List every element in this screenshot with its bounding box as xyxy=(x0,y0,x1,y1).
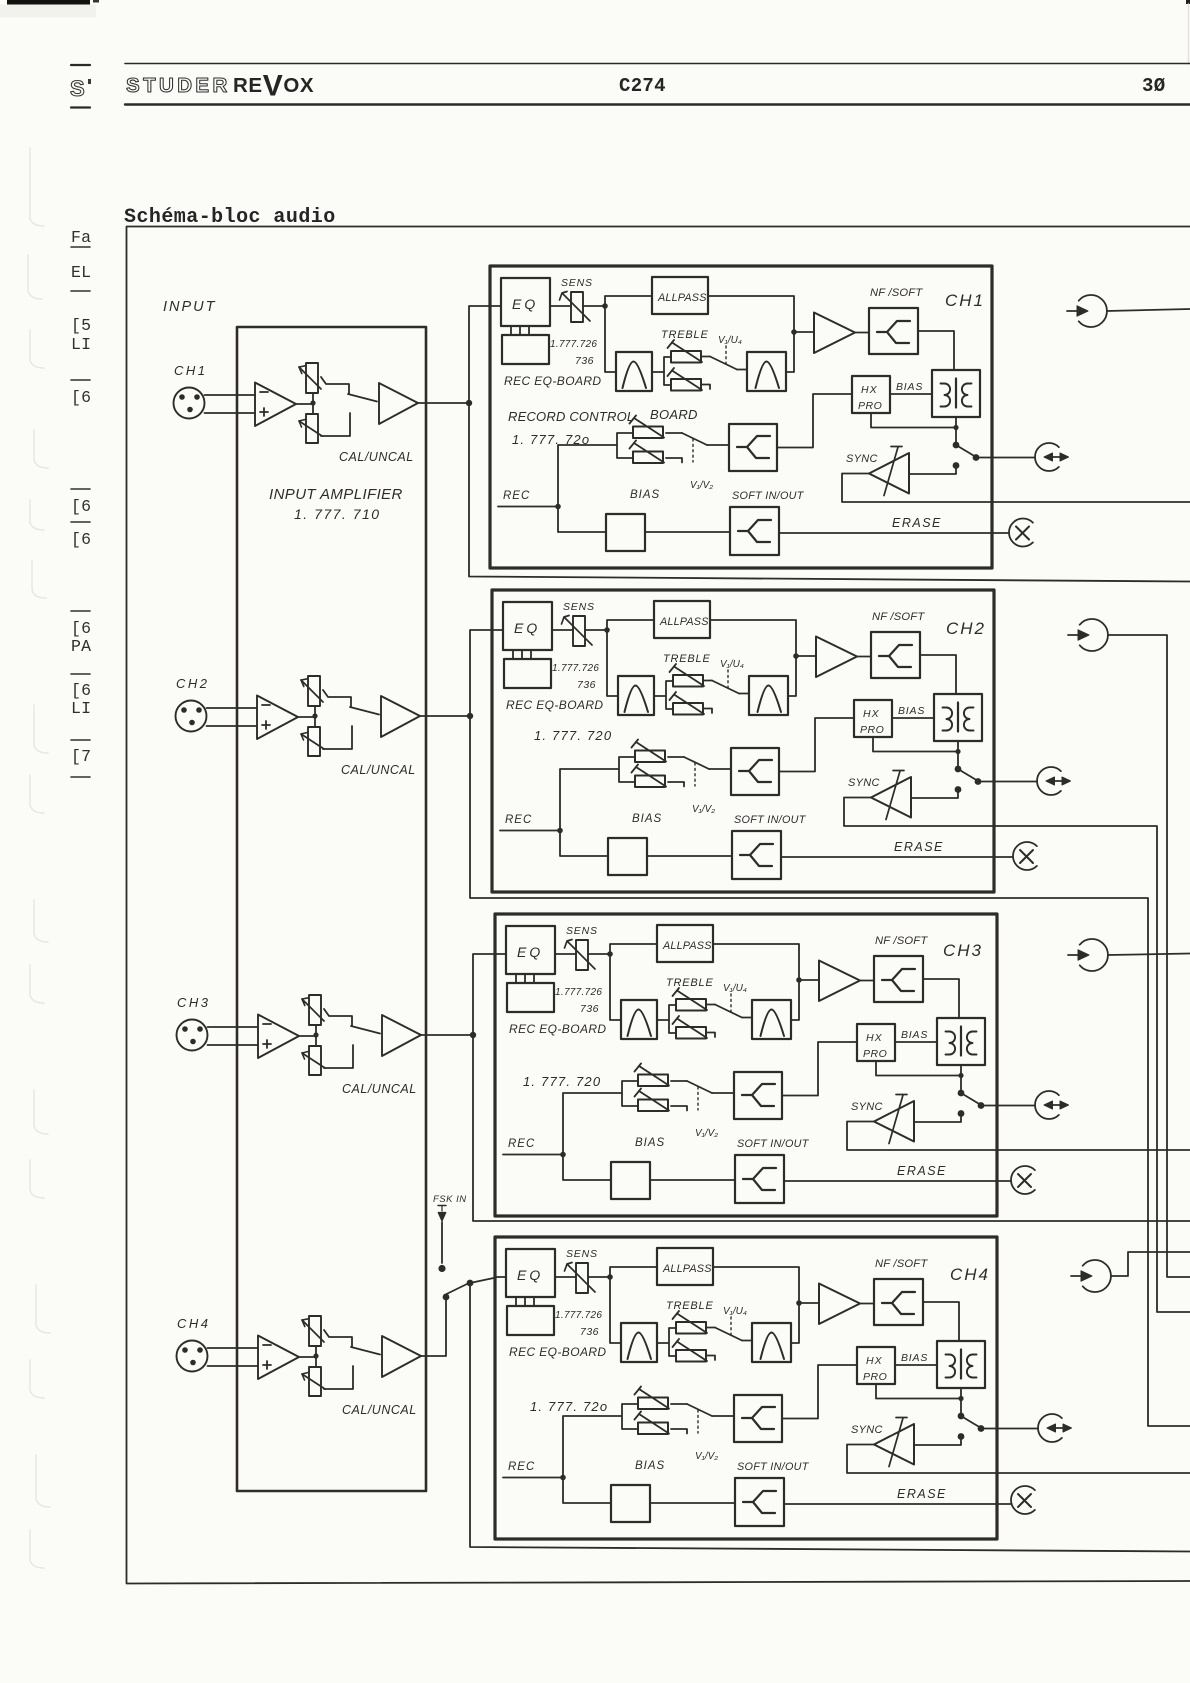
wire CH2 amp out to bus node xyxy=(420,715,470,717)
CAL trim pot upper xyxy=(302,995,324,1025)
wire REC to erase path xyxy=(558,507,606,533)
wires XLR to input op-amp xyxy=(208,1027,259,1045)
EQ block xyxy=(503,602,552,650)
bias switch arm xyxy=(687,1081,712,1093)
wire arm to record fork xyxy=(707,444,729,446)
node sync switch common xyxy=(958,1413,965,1420)
bias switch link dotted xyxy=(697,1410,699,1433)
node sync contact xyxy=(958,1110,965,1117)
node CAL junction CH4 xyxy=(313,1353,318,1358)
treble switch contacts xyxy=(706,1005,715,1038)
wire erase out xyxy=(779,532,992,534)
TREBLE trim pot lower xyxy=(673,1016,708,1039)
svg-text:CAL/UNCAL: CAL/UNCAL xyxy=(342,1082,417,1096)
svg-text:PRO: PRO xyxy=(860,724,884,736)
wire CH2 sync feed line xyxy=(994,826,1190,1312)
svg-text:ERASE: ERASE xyxy=(892,516,942,530)
svg-text:Fa: Fa xyxy=(71,228,91,247)
svg-text:BOARD: BOARD xyxy=(650,407,698,422)
svg-text:FSK IN: FSK IN xyxy=(433,1194,467,1205)
wire allpass out xyxy=(713,944,799,980)
svg-text:BIAS: BIAS xyxy=(632,813,662,825)
erase oscillator block xyxy=(608,838,647,875)
SENS trim pot xyxy=(571,292,583,322)
cut-off left column text fragments xyxy=(71,228,91,777)
node REC xyxy=(560,1152,566,1158)
wire CH4 sync feed line xyxy=(997,1472,1190,1474)
wire node to bandpass1 xyxy=(610,1277,621,1343)
wire bp2 out xyxy=(791,1303,799,1343)
node head bottom xyxy=(955,749,960,754)
wire switch out to edge xyxy=(981,1428,997,1430)
EQ block xyxy=(506,926,555,974)
SENS trim pot xyxy=(576,1263,588,1293)
svg-text:REC EQ-BOARD: REC EQ-BOARD xyxy=(504,374,601,388)
wire head to sync switch xyxy=(957,741,959,769)
BIAS trim pot lower xyxy=(630,441,665,464)
EQ board connector pins xyxy=(516,974,534,983)
svg-text:C274: C274 xyxy=(619,75,666,97)
wire CH3 line out to edge xyxy=(1108,954,1190,956)
wire node to amp xyxy=(799,1302,819,1304)
svg-text:1.777.726: 1.777.726 xyxy=(552,663,599,674)
wire hxpro to transformer xyxy=(890,393,932,395)
svg-text:SENS: SENS xyxy=(566,925,598,937)
svg-text:BIAS: BIAS xyxy=(901,1352,928,1364)
record mode fork block xyxy=(734,1395,782,1442)
svg-text:REC: REC xyxy=(503,490,530,502)
svg-text:V₁/U₄: V₁/U₄ xyxy=(720,659,744,670)
wire arm to bandpass2 xyxy=(737,369,747,371)
node sync switch common xyxy=(955,766,962,773)
svg-text:HX: HX xyxy=(866,1355,883,1367)
svg-text:PRO: PRO xyxy=(858,400,882,412)
XLR input connector CH2 xyxy=(176,701,207,732)
XLR input connector CH4 xyxy=(177,1341,208,1372)
record amp triangle xyxy=(819,1284,860,1325)
ALLPASS block xyxy=(652,277,708,314)
TREBLE trim pot lower xyxy=(673,1339,708,1362)
wire node to allpass xyxy=(607,620,654,630)
svg-text:NF /SOFT: NF /SOFT xyxy=(872,611,925,623)
wire arm to bandpass2 xyxy=(739,693,749,695)
wire hxpro bottom loop xyxy=(871,413,956,428)
wire arm to bandpass2 xyxy=(742,1340,752,1342)
record amp triangle xyxy=(816,637,857,678)
wires XLR to input op-amp xyxy=(208,1348,259,1366)
wire CH1 line out to edge xyxy=(1107,309,1190,311)
wire REC to bias pots xyxy=(563,1404,638,1478)
svg-text:PA: PA xyxy=(71,637,91,656)
record head transformer xyxy=(937,1018,985,1065)
wire CH2 erase to connector xyxy=(994,856,1013,858)
CAL trim pot lower xyxy=(301,727,324,756)
svg-text:CAL/UNCAL: CAL/UNCAL xyxy=(341,763,416,777)
BIAS trim pot lower xyxy=(635,1412,670,1435)
second op-amp CH2 xyxy=(381,696,420,737)
svg-text:LI: LI xyxy=(71,335,91,354)
svg-text:INPUT AMPLIFIER: INPUT AMPLIFIER xyxy=(269,486,403,503)
monitor connector CH4 xyxy=(1038,1414,1071,1442)
svg-text:[6: [6 xyxy=(71,388,91,407)
wire bp1 to treble pots xyxy=(657,1005,676,1033)
svg-text:CH2: CH2 xyxy=(946,619,986,638)
sync playback amp xyxy=(874,1424,914,1465)
wire CH3 sync switch to monitor connector xyxy=(997,1105,1035,1107)
node EQ out xyxy=(607,951,613,957)
CAL trim pot lower xyxy=(302,1046,325,1075)
node sync contact xyxy=(953,462,960,469)
wire sync amp to feed line xyxy=(844,798,994,827)
wire CH4 bus to lower bus line xyxy=(470,1283,1190,1552)
bandpass filter 2 xyxy=(752,1000,791,1039)
wire EQ to SENS to node xyxy=(495,953,610,955)
TREBLE trim pot lower xyxy=(670,692,705,715)
svg-text:CH3: CH3 xyxy=(177,995,211,1010)
wire amp to nf/soft xyxy=(855,332,869,334)
wire fork to hxpro xyxy=(782,1365,857,1419)
wires XLR to input op-amp xyxy=(207,708,258,726)
node allpass/bp join xyxy=(793,653,799,659)
HX PRO block xyxy=(854,700,892,737)
wire allpass out xyxy=(713,1267,799,1303)
monitor connector CH2 xyxy=(1037,767,1070,795)
input op-amp CH1 xyxy=(255,383,296,427)
node head bottom xyxy=(953,425,958,430)
wire sync amp to feed line xyxy=(847,1122,997,1151)
SENS trim pot xyxy=(576,940,588,970)
svg-text:ALLPASS: ALLPASS xyxy=(662,940,712,952)
wire CH3 bus to EQ xyxy=(473,954,496,1035)
wire node to allpass xyxy=(610,944,657,954)
CAL trim pot upper xyxy=(301,676,323,706)
wire node to amp xyxy=(799,979,819,981)
svg-text:STUDER: STUDER xyxy=(126,74,231,97)
svg-text:ERASE: ERASE xyxy=(894,840,944,854)
wire bp1 to treble pots xyxy=(654,681,673,709)
wire arm to record fork xyxy=(712,1092,734,1094)
header top rule xyxy=(125,63,1190,65)
BIAS trim pot upper xyxy=(635,1064,670,1087)
erase oscillator block xyxy=(611,1162,650,1199)
svg-text:[6: [6 xyxy=(71,619,91,638)
wire osc to erase fork xyxy=(650,1502,735,1504)
svg-text:CH1: CH1 xyxy=(945,291,985,310)
wire CH2 sync switch to monitor connector xyxy=(994,781,1037,783)
svg-text:ERASE: ERASE xyxy=(897,1164,947,1178)
wire amp to nf/soft xyxy=(860,980,874,982)
BIAS trim pot upper xyxy=(632,740,667,763)
record head transformer xyxy=(934,694,982,741)
record amp triangle xyxy=(814,313,855,354)
wire CH2 line out routing xyxy=(1108,635,1190,1277)
BIAS trim pot lower xyxy=(632,765,667,788)
wire node to amp xyxy=(796,655,816,657)
HX PRO block xyxy=(857,1347,895,1384)
svg-text:BIAS: BIAS xyxy=(635,1137,665,1149)
node CH4 signal contact xyxy=(443,1294,450,1301)
svg-text:BIAS: BIAS xyxy=(901,1029,928,1041)
TREBLE trim pot upper xyxy=(668,340,703,363)
HX PRO block xyxy=(852,376,890,413)
sync switch arm xyxy=(961,1416,981,1428)
erase fork block xyxy=(735,1155,784,1203)
wire node to bandpass1 xyxy=(605,306,616,372)
wire node to bandpass1 xyxy=(607,630,618,696)
wire op-amp to CAL node xyxy=(296,403,313,405)
svg-text:TREBLE: TREBLE xyxy=(666,1300,714,1312)
svg-text:PRO: PRO xyxy=(863,1371,887,1383)
svg-text:BIAS: BIAS xyxy=(898,705,925,717)
wire allpass out xyxy=(710,620,796,656)
wire bp1 to treble pots xyxy=(657,1328,676,1356)
scanner black bar top left xyxy=(7,0,90,5)
wires CAL network xyxy=(312,393,314,414)
node sync switch out xyxy=(973,454,980,461)
FSK switch arm xyxy=(445,1284,469,1296)
wire switch out to edge xyxy=(981,1105,997,1107)
wire node to allpass xyxy=(610,1267,657,1277)
wire CH4 erase to connector xyxy=(997,1503,1011,1505)
svg-text:NF /SOFT: NF /SOFT xyxy=(870,287,923,299)
channel block CH2 border xyxy=(492,590,994,892)
CAL trim pot lower xyxy=(299,414,322,443)
wire REC to bias pots xyxy=(563,1081,638,1155)
sync switch arm xyxy=(961,1093,981,1105)
HX PRO block xyxy=(857,1024,895,1061)
svg-text:SOFT IN/OUT: SOFT IN/OUT xyxy=(732,490,805,502)
wire osc to erase fork xyxy=(650,1179,735,1181)
svg-text:V₁/V₂: V₁/V₂ xyxy=(695,1128,718,1139)
svg-text:SYNC: SYNC xyxy=(848,777,880,789)
TREBLE trim pot upper xyxy=(673,1311,708,1334)
CAL trim pot upper xyxy=(302,1316,324,1346)
svg-text:LI: LI xyxy=(71,699,91,718)
bias switch arm xyxy=(684,757,709,769)
svg-text:1.777.726: 1.777.726 xyxy=(555,1310,602,1321)
svg-text:ALLPASS: ALLPASS xyxy=(662,1263,712,1275)
svg-text:TREBLE: TREBLE xyxy=(661,329,709,341)
record head transformer xyxy=(937,1341,985,1388)
wire CH1 erase to connector xyxy=(992,532,1009,534)
wire op-amp to CAL node xyxy=(299,1035,316,1037)
svg-text:SENS: SENS xyxy=(563,601,595,613)
wire osc to erase fork xyxy=(645,531,730,533)
svg-text:736: 736 xyxy=(575,355,594,367)
wire fork to hxpro xyxy=(782,1042,857,1096)
ALLPASS block xyxy=(657,1248,713,1285)
CAL trim pot lower xyxy=(302,1367,325,1396)
node EQ out xyxy=(602,303,608,309)
bandpass filter 2 xyxy=(749,676,788,715)
bias switch link dotted xyxy=(697,1087,699,1110)
svg-text:SYNC: SYNC xyxy=(851,1424,883,1436)
FSK IN terminal arrow xyxy=(438,1205,446,1207)
wire EQ to SENS to node xyxy=(492,629,607,631)
svg-text:REC: REC xyxy=(508,1461,535,1473)
wire EQ to SENS to node xyxy=(490,305,605,307)
wire node to allpass xyxy=(605,296,652,306)
wire sync contact to sync amp xyxy=(911,790,958,799)
node CH4 input bus xyxy=(467,1280,474,1287)
wire nf/soft to head transformer xyxy=(920,655,956,694)
svg-text:CH4: CH4 xyxy=(177,1316,211,1331)
wire REC in xyxy=(498,506,558,508)
svg-text:REC EQ-BOARD: REC EQ-BOARD xyxy=(509,1022,606,1036)
wire hxpro bottom loop xyxy=(876,1061,961,1076)
svg-text:EQ: EQ xyxy=(512,296,538,312)
node REC xyxy=(557,828,563,834)
svg-text:SYNC: SYNC xyxy=(851,1101,883,1113)
EQ block xyxy=(501,278,550,326)
svg-text:1. 777. 720: 1. 777. 720 xyxy=(534,728,612,743)
svg-text:CAL/UNCAL: CAL/UNCAL xyxy=(339,450,414,464)
XLR input connector CH3 xyxy=(177,1020,208,1051)
wire REC in xyxy=(503,1154,563,1156)
node head bottom xyxy=(958,1073,963,1078)
wire CH1 bus to EQ xyxy=(469,306,491,403)
svg-text:HX: HX xyxy=(866,1032,883,1044)
outer schematic frame xyxy=(127,227,1190,1584)
svg-text:SENS: SENS xyxy=(566,1248,598,1260)
BIAS trim pot upper xyxy=(630,416,665,439)
wire nf/soft to head transformer xyxy=(918,331,954,370)
EQ daughter board xyxy=(502,335,549,364)
wire CH1 bus to lower bus line xyxy=(469,403,1190,582)
node sync switch out xyxy=(978,1102,985,1109)
svg-text:CAL/UNCAL: CAL/UNCAL xyxy=(342,1403,417,1417)
svg-text:1. 777. 710: 1. 777. 710 xyxy=(294,506,381,522)
wire hxpro to transformer xyxy=(895,1364,937,1366)
bandpass filter 1 xyxy=(621,1000,657,1039)
faint scan artifacts left edge xyxy=(28,148,50,1568)
wire sync amp to feed line xyxy=(847,1445,997,1474)
node sync contact xyxy=(955,786,962,793)
svg-text:V₁/U₄: V₁/U₄ xyxy=(718,335,742,346)
treble switch contacts xyxy=(706,1328,715,1361)
channel block CH3 border xyxy=(495,914,997,1216)
svg-text:SYNC: SYNC xyxy=(846,453,878,465)
erase connector CH1 xyxy=(1009,519,1033,547)
node CAL junction CH2 xyxy=(312,713,317,718)
node EQ out xyxy=(604,627,610,633)
svg-text:736: 736 xyxy=(577,679,596,691)
wire CH3 amp out to bus node xyxy=(421,1034,473,1036)
sync playback amp xyxy=(874,1101,914,1142)
erase oscillator block xyxy=(606,514,645,551)
svg-text:REC: REC xyxy=(508,1138,535,1150)
wire erase out xyxy=(784,1503,997,1505)
node CAL junction CH1 xyxy=(310,400,315,405)
erase connector CH3 xyxy=(1011,1166,1035,1194)
wire bp2 out xyxy=(788,656,796,696)
EQ board connector pins xyxy=(513,650,531,659)
switch link dotted xyxy=(725,346,727,365)
record mode fork block xyxy=(729,424,777,471)
wire arm to bandpass2 xyxy=(742,1017,752,1019)
NF/SOFT switch block xyxy=(871,632,920,678)
monitor connector CH3 xyxy=(1035,1091,1068,1119)
wire arm to record fork xyxy=(709,768,731,770)
wire erase out xyxy=(781,856,994,858)
SENS trim pot xyxy=(573,616,585,646)
svg-text:SOFT IN/OUT: SOFT IN/OUT xyxy=(737,1461,810,1473)
svg-text:736: 736 xyxy=(580,1326,599,1338)
wire nf/soft to head transformer xyxy=(923,1302,959,1341)
node EQ out xyxy=(607,1274,613,1280)
TREBLE trim pot upper xyxy=(670,664,705,687)
svg-text:INPUT: INPUT xyxy=(163,299,217,315)
svg-text:[6: [6 xyxy=(71,530,91,549)
svg-text:V₁/U₄: V₁/U₄ xyxy=(723,983,747,994)
svg-text:EL: EL xyxy=(71,263,91,282)
wire osc to erase fork xyxy=(647,855,732,857)
node sync contact xyxy=(958,1433,965,1440)
treble switch contacts xyxy=(703,681,712,714)
treble switch contacts xyxy=(701,357,710,390)
bias switch contacts xyxy=(671,1081,687,1111)
svg-text:NF /SOFT: NF /SOFT xyxy=(875,1258,928,1270)
node FSK contact xyxy=(438,1265,445,1272)
svg-text:1.777.726: 1.777.726 xyxy=(550,339,597,350)
NF/SOFT switch block xyxy=(874,1279,923,1325)
erase connector CH2 xyxy=(1013,842,1037,870)
svg-text:SENS: SENS xyxy=(561,277,593,289)
wire sync amp to feed line xyxy=(842,474,992,503)
channel block CH4 border xyxy=(495,1237,997,1539)
wire amp to nf/soft xyxy=(860,1303,874,1305)
XLR input connector CH1 xyxy=(174,388,205,419)
node CH3 input bus xyxy=(470,1032,476,1038)
wire CH1 sync switch to monitor connector xyxy=(992,457,1035,459)
node allpass/bp join xyxy=(796,977,802,983)
node CAL junction CH3 xyxy=(313,1032,318,1037)
wire EQ to SENS to node xyxy=(495,1276,610,1278)
wire CH4 line out routing xyxy=(1111,1252,1190,1276)
CAL/UNCAL switch arm xyxy=(351,1026,380,1034)
wire sync contact to sync amp xyxy=(909,466,956,475)
svg-text:CH4: CH4 xyxy=(950,1265,990,1284)
bias switch link dotted xyxy=(694,763,696,786)
wire CH2 bus to lower bus line xyxy=(470,716,1190,1426)
scanner mark top right xyxy=(1186,0,1190,4)
ALLPASS block xyxy=(654,601,710,638)
wire bp1 to treble pots xyxy=(652,357,671,385)
line output connector CH3 xyxy=(1068,939,1108,971)
switch link dotted xyxy=(727,670,729,689)
wire bp2 out xyxy=(791,980,799,1020)
node sync switch common xyxy=(958,1090,965,1097)
node sync switch out xyxy=(975,778,982,785)
node sync switch common xyxy=(953,442,960,449)
node CH2 input bus xyxy=(467,713,473,719)
sync switch arm xyxy=(958,769,978,781)
header bottom rule xyxy=(125,103,1190,105)
treble switch arm xyxy=(715,1328,742,1341)
input op-amp CH2 xyxy=(257,696,298,740)
bandpass filter 1 xyxy=(621,1323,657,1362)
wire head to sync switch xyxy=(960,1388,962,1416)
svg-text:Schéma-bloc audio: Schéma-bloc audio xyxy=(124,206,336,229)
wires CAL network xyxy=(315,1346,317,1367)
wire CH4 amp out to FSK switch xyxy=(421,1297,446,1356)
wire REC to erase path xyxy=(563,1155,611,1181)
wire sync contact to sync amp xyxy=(914,1114,961,1123)
wire fork to hxpro xyxy=(779,718,854,772)
wire CH1 sync feed line xyxy=(992,501,1190,503)
wire CH4 bus to EQ xyxy=(470,1278,496,1284)
wire fork to hxpro xyxy=(777,394,852,448)
